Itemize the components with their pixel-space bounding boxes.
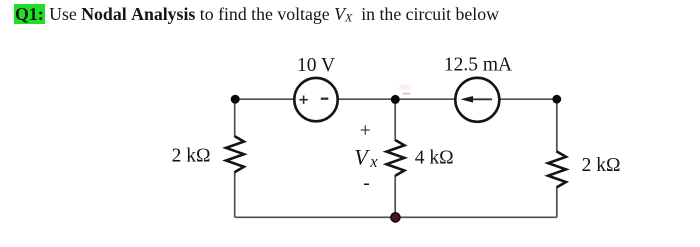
svg-text:12.5 mA: 12.5 mA: [444, 55, 512, 76]
svg-text:+: +: [360, 121, 371, 142]
svg-text:10 V: 10 V: [297, 55, 335, 76]
svg-text:-: -: [363, 173, 370, 194]
svg-text:x: x: [369, 152, 378, 171]
svg-text:2 kΩ: 2 kΩ: [582, 155, 621, 176]
svg-text:2 kΩ: 2 kΩ: [172, 146, 211, 167]
svg-text:V: V: [354, 145, 370, 170]
svg-text:4 kΩ: 4 kΩ: [415, 148, 454, 169]
